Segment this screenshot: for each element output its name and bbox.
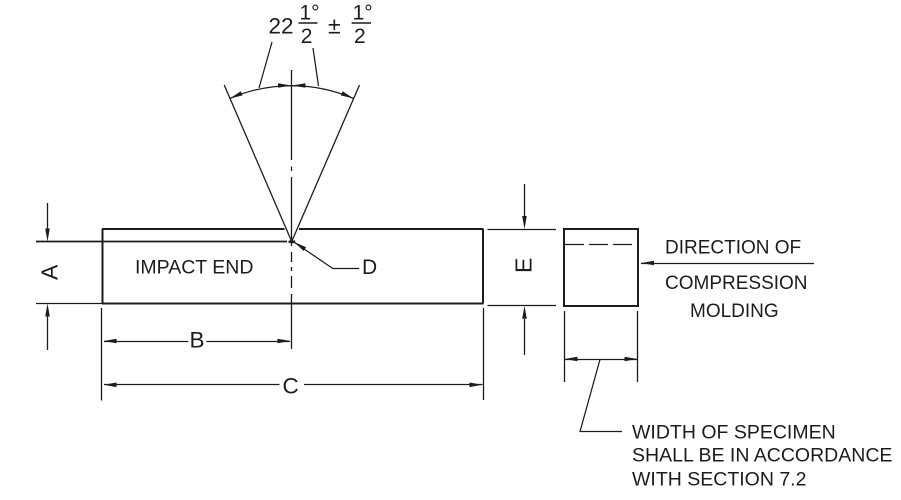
svg-text:E: E	[511, 258, 537, 273]
notch flank right construction line	[292, 85, 360, 242]
angle leader right	[313, 48, 319, 86]
svg-text:2: 2	[301, 25, 313, 48]
svg-text:IMPACT END: IMPACT END	[135, 257, 253, 279]
angle leader left	[259, 42, 272, 88]
svg-text:SHALL BE IN ACCORDANCE: SHALL BE IN ACCORDANCE	[632, 445, 892, 467]
notch root depth line	[36, 241, 287, 243]
svg-text:A: A	[37, 264, 63, 280]
svg-text:DIRECTION OF: DIRECTION OF	[665, 238, 801, 259]
arrowhead D leader	[294, 242, 306, 251]
width dimension extension line left	[564, 311, 566, 382]
molded square dashed parting line	[565, 244, 637, 246]
svg-text:COMPRESSION: COMPRESSION	[665, 273, 808, 294]
bar bottom extension line left	[36, 303, 102, 305]
svg-text:WIDTH OF SPECIMEN: WIDTH OF SPECIMEN	[632, 422, 836, 444]
svg-text:2: 2	[354, 25, 366, 48]
dimension A arrow lines	[47, 203, 49, 350]
width dimension extension line right	[637, 311, 639, 382]
arrowhead arc outer right	[341, 91, 354, 98]
bar left extension line below	[101, 308, 103, 401]
arrowhead width dimension left	[565, 357, 578, 362]
width dimension line	[565, 359, 638, 361]
direction of molding arrow line	[641, 263, 814, 265]
arrowhead dimension C left	[104, 383, 117, 388]
svg-text:C: C	[283, 374, 299, 399]
svg-text:22: 22	[269, 13, 294, 38]
centerline through notch	[291, 70, 293, 349]
notch flank left construction line	[224, 85, 292, 242]
dimension E arrow lines	[524, 184, 526, 355]
svg-text:1°: 1°	[300, 1, 320, 24]
arrowhead dimension E bottom	[522, 306, 527, 319]
arrowhead arc center pointing left	[292, 83, 305, 88]
arrowhead molding direction	[641, 261, 654, 266]
specimen bar outline	[102, 229, 484, 304]
dimension E extension line top	[488, 229, 557, 231]
svg-text:1°: 1°	[353, 1, 373, 24]
svg-text:±: ±	[328, 13, 341, 39]
width note leader	[580, 360, 622, 432]
arrowhead dimension E top	[522, 216, 527, 229]
arrowhead dimension B left	[104, 339, 117, 344]
molded square outline	[564, 229, 638, 306]
svg-text:B: B	[190, 328, 205, 353]
arrowhead width dimension right	[625, 357, 638, 362]
arrowhead dimension A top	[45, 229, 50, 242]
svg-text:MOLDING: MOLDING	[690, 301, 779, 322]
arrowhead dimension A bottom	[45, 304, 50, 317]
D leader line	[295, 243, 360, 269]
arrowhead arc center pointing right	[278, 83, 291, 88]
svg-text:D: D	[362, 256, 377, 279]
notch root radius mark	[289, 241, 296, 244]
bar right extension line below	[483, 308, 485, 400]
dimension E extension line bottom	[488, 305, 557, 307]
svg-text:WITH SECTION 7.2: WITH SECTION 7.2	[632, 469, 806, 491]
dimension B line	[104, 341, 290, 343]
angle fraction 2 bar	[352, 22, 371, 24]
angle fraction 1 bar	[299, 22, 318, 24]
angle dimension arc	[230, 86, 354, 99]
arrowhead dimension C right	[470, 383, 483, 388]
arrowhead arc outer left	[230, 91, 243, 98]
arrowhead dimension B right	[278, 339, 291, 344]
dimension C line	[104, 384, 483, 386]
